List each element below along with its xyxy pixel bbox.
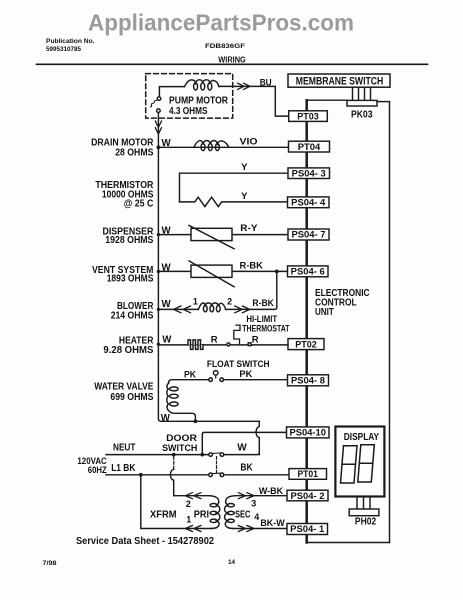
display module box [335, 427, 384, 497]
svg-text:2: 2 [186, 499, 191, 509]
heater element [188, 340, 203, 350]
junction NEUT-transformer [172, 453, 176, 457]
pump motor coil L1 [185, 80, 219, 87]
svg-text:THERMOSTAT: THERMOSTAT [242, 324, 289, 334]
svg-text:W: W [162, 262, 172, 273]
svg-text:WATER VALVE: WATER VALVE [94, 381, 154, 392]
junction L1-transformer [139, 473, 143, 477]
dispenser wire [158, 234, 288, 236]
W rail [158, 147, 193, 421]
svg-text:5995310785: 5995310785 [46, 46, 81, 53]
float switch wire left from valve coil [169, 380, 209, 384]
door switch BK blade [212, 472, 220, 475]
svg-text:1928 OHMS: 1928 OHMS [105, 235, 154, 246]
svg-text:W: W [162, 138, 172, 149]
wire pump coil to BU corner to PT03 [219, 86, 289, 116]
svg-text:R-BK: R-BK [252, 298, 274, 309]
xfrm pin3 wire to PS04-2 [235, 495, 288, 497]
svg-text:BK-W: BK-W [260, 518, 284, 529]
svg-text:XFRM: XFRM [150, 509, 177, 520]
junction NEUT-doorswitch branch [200, 453, 204, 457]
thermostat actuator [234, 325, 240, 344]
svg-text:AppliancePartsPros.com: AppliancePartsPros.com [88, 10, 354, 36]
ECU left bus [305, 100, 308, 542]
float switch contacts [209, 378, 213, 382]
xfrm pin4 chevrons [238, 526, 254, 532]
svg-text:PS04- 4: PS04- 4 [291, 197, 326, 208]
svg-text:1: 1 [186, 515, 191, 525]
svg-text:SWITCH: SWITCH [162, 442, 198, 453]
svg-text:BU: BU [260, 77, 272, 88]
svg-text:PH02: PH02 [355, 516, 377, 527]
thermistor loop top wire [180, 173, 289, 202]
svg-text:SEC: SEC [235, 510, 251, 521]
svg-text:Publication No.: Publication No. [46, 38, 95, 45]
wire down with hop to door switch W [256, 421, 259, 454]
svg-text:W: W [162, 299, 172, 310]
blower wire left [158, 308, 198, 310]
svg-text:R: R [252, 334, 259, 345]
svg-text:FLOAT SWITCH: FLOAT SWITCH [207, 358, 270, 369]
svg-text:DISPLAY: DISPLAY [344, 432, 380, 443]
svg-text:PS04- 1: PS04- 1 [290, 523, 324, 534]
rail tap dots [157, 145, 161, 149]
arrow double chevron down [155, 121, 161, 134]
svg-text:FDB836GF: FDB836GF [205, 43, 245, 50]
svg-text:R: R [211, 334, 218, 345]
svg-text:2: 2 [227, 297, 232, 307]
blower coil [198, 303, 225, 310]
svg-text:PS04-10: PS04-10 [289, 427, 326, 438]
dashed drop from NEUT junction [173, 457, 175, 469]
vent actuator diagonal [189, 261, 234, 287]
xfrm primary winding [210, 496, 220, 529]
svg-text:214 OHMS: 214 OHMS [111, 310, 154, 321]
svg-text:4.3 OHMS: 4.3 OHMS [169, 106, 208, 117]
membrane switch box [288, 74, 390, 87]
pump switch actuator squiggle [151, 101, 157, 107]
svg-text:60HZ: 60HZ [88, 464, 107, 475]
svg-text:PT03: PT03 [297, 110, 319, 121]
wire doorswitch BK to PT01 [224, 474, 289, 476]
svg-text:1893 OHMS: 1893 OHMS [107, 273, 154, 284]
svg-text:L1 BK: L1 BK [111, 463, 135, 474]
vent wire [158, 270, 287, 272]
xfrm pin3 chevrons [238, 493, 254, 499]
wire NEUT feed [106, 454, 209, 456]
svg-text:PK03: PK03 [351, 109, 373, 120]
connector chevrons BU [238, 83, 250, 89]
xfrm pin2 wire [174, 495, 210, 497]
connector PK03 base [347, 100, 377, 106]
svg-text:PT02: PT02 [295, 338, 317, 349]
junction vent-blower [275, 270, 279, 274]
vent actuator box [191, 265, 232, 277]
svg-text:PRI: PRI [194, 510, 209, 521]
heater wire to PT02 [230, 344, 288, 346]
xfrm pin1 chevrons [185, 526, 201, 532]
thermistor bottom wire + zigzag [180, 197, 289, 206]
svg-text:PS04- 3: PS04- 3 [292, 167, 326, 178]
ECU right edge [389, 102, 391, 543]
svg-text:W: W [162, 334, 172, 345]
svg-text:W-BK: W-BK [259, 486, 283, 497]
display connector pins [357, 497, 370, 510]
svg-text:PK: PK [239, 369, 252, 380]
ECU top edge right [377, 101, 390, 103]
door switch W blade [212, 452, 220, 455]
svg-text:W: W [162, 226, 172, 237]
pump switch contact top [157, 97, 161, 101]
ECU top edge left [307, 99, 348, 101]
branch up and over to PS04-10 [202, 432, 286, 454]
svg-text:4: 4 [254, 512, 259, 522]
wire pump switch down to rail [157, 113, 159, 148]
7-segment digit 1 [341, 446, 358, 483]
pump switch contact bottom [157, 109, 161, 113]
svg-text:PT04: PT04 [298, 141, 321, 152]
svg-text:PS04- 6: PS04- 6 [291, 266, 325, 277]
dispenser actuator diagonal [189, 225, 234, 248]
svg-text:7/98: 7/98 [43, 560, 57, 567]
wire valve node to right [195, 420, 259, 422]
svg-text:R-Y: R-Y [240, 223, 258, 234]
wire doorswitch W to right riser [224, 453, 259, 455]
svg-text:W: W [161, 413, 171, 424]
door switch linkage dashed [216, 457, 218, 473]
svg-text:PS04- 8: PS04- 8 [291, 375, 325, 386]
svg-text:PS04- 2: PS04- 2 [291, 490, 325, 501]
svg-text:3: 3 [251, 499, 256, 509]
svg-text:UNIT: UNIT [315, 307, 334, 318]
svg-text:Service Data Sheet - 154278902: Service Data Sheet - 154278902 [76, 536, 214, 547]
connector boxes [287, 111, 330, 535]
junction water valve node [194, 419, 198, 423]
dispenser actuator box [191, 228, 232, 240]
door switch BK contacts [209, 473, 213, 477]
blower chevrons left [174, 306, 191, 313]
svg-text:14: 14 [228, 559, 236, 566]
display connector base [349, 509, 379, 516]
svg-text:PK: PK [184, 369, 196, 380]
svg-text:Y: Y [241, 191, 248, 202]
svg-text:VIO: VIO [240, 136, 258, 147]
heater wire [158, 344, 226, 346]
svg-text:R-BK: R-BK [240, 260, 263, 271]
svg-text:9.28 OHMS: 9.28 OHMS [103, 345, 154, 356]
svg-text:BK: BK [240, 463, 252, 474]
svg-text:@ 25 C: @ 25 C [124, 198, 154, 209]
svg-text:PS04- 7: PS04- 7 [292, 229, 326, 240]
svg-text:NEUT: NEUT [113, 442, 135, 453]
wire L1 down to xfrm pin1 [141, 475, 212, 529]
drain motor coil [194, 141, 229, 148]
connector PK03 pins [353, 87, 371, 100]
xfrm pin4 wire to PS04-1 [233, 528, 288, 530]
svg-text:28 OHMS: 28 OHMS [115, 147, 154, 158]
hop over L1 wire down to xfrm pin2 [170, 469, 173, 495]
svg-text:W: W [237, 443, 247, 454]
door switch W contacts [209, 453, 213, 457]
float switch actuator [215, 375, 217, 378]
xfrm secondary winding [225, 496, 235, 529]
wire coil-left to switch [159, 87, 184, 97]
water valve coil [167, 383, 196, 421]
svg-text:1: 1 [193, 297, 198, 307]
blower wire right up to vent junction [226, 271, 277, 309]
wire L1 feed [106, 474, 209, 476]
svg-text:WIRING: WIRING [218, 56, 246, 65]
svg-text:Y: Y [241, 162, 248, 173]
svg-text:699 OHMS: 699 OHMS [110, 392, 153, 403]
drain motor wire [158, 146, 288, 148]
svg-text:PT01: PT01 [297, 468, 318, 479]
pump motor dashed enclosure [146, 74, 233, 119]
svg-text:MEMBRANE SWITCH: MEMBRANE SWITCH [296, 75, 384, 87]
top rule [37, 63, 428, 65]
svg-text:HI-LIMIT: HI-LIMIT [246, 314, 277, 324]
hi-limit thermostat contacts [227, 343, 230, 346]
blower chevrons right [235, 306, 250, 313]
ECU bottom edge [307, 542, 390, 544]
7-segment digit 2 [358, 445, 375, 482]
float switch wire right [224, 379, 288, 381]
xfrm pin2 chevrons [185, 493, 201, 499]
